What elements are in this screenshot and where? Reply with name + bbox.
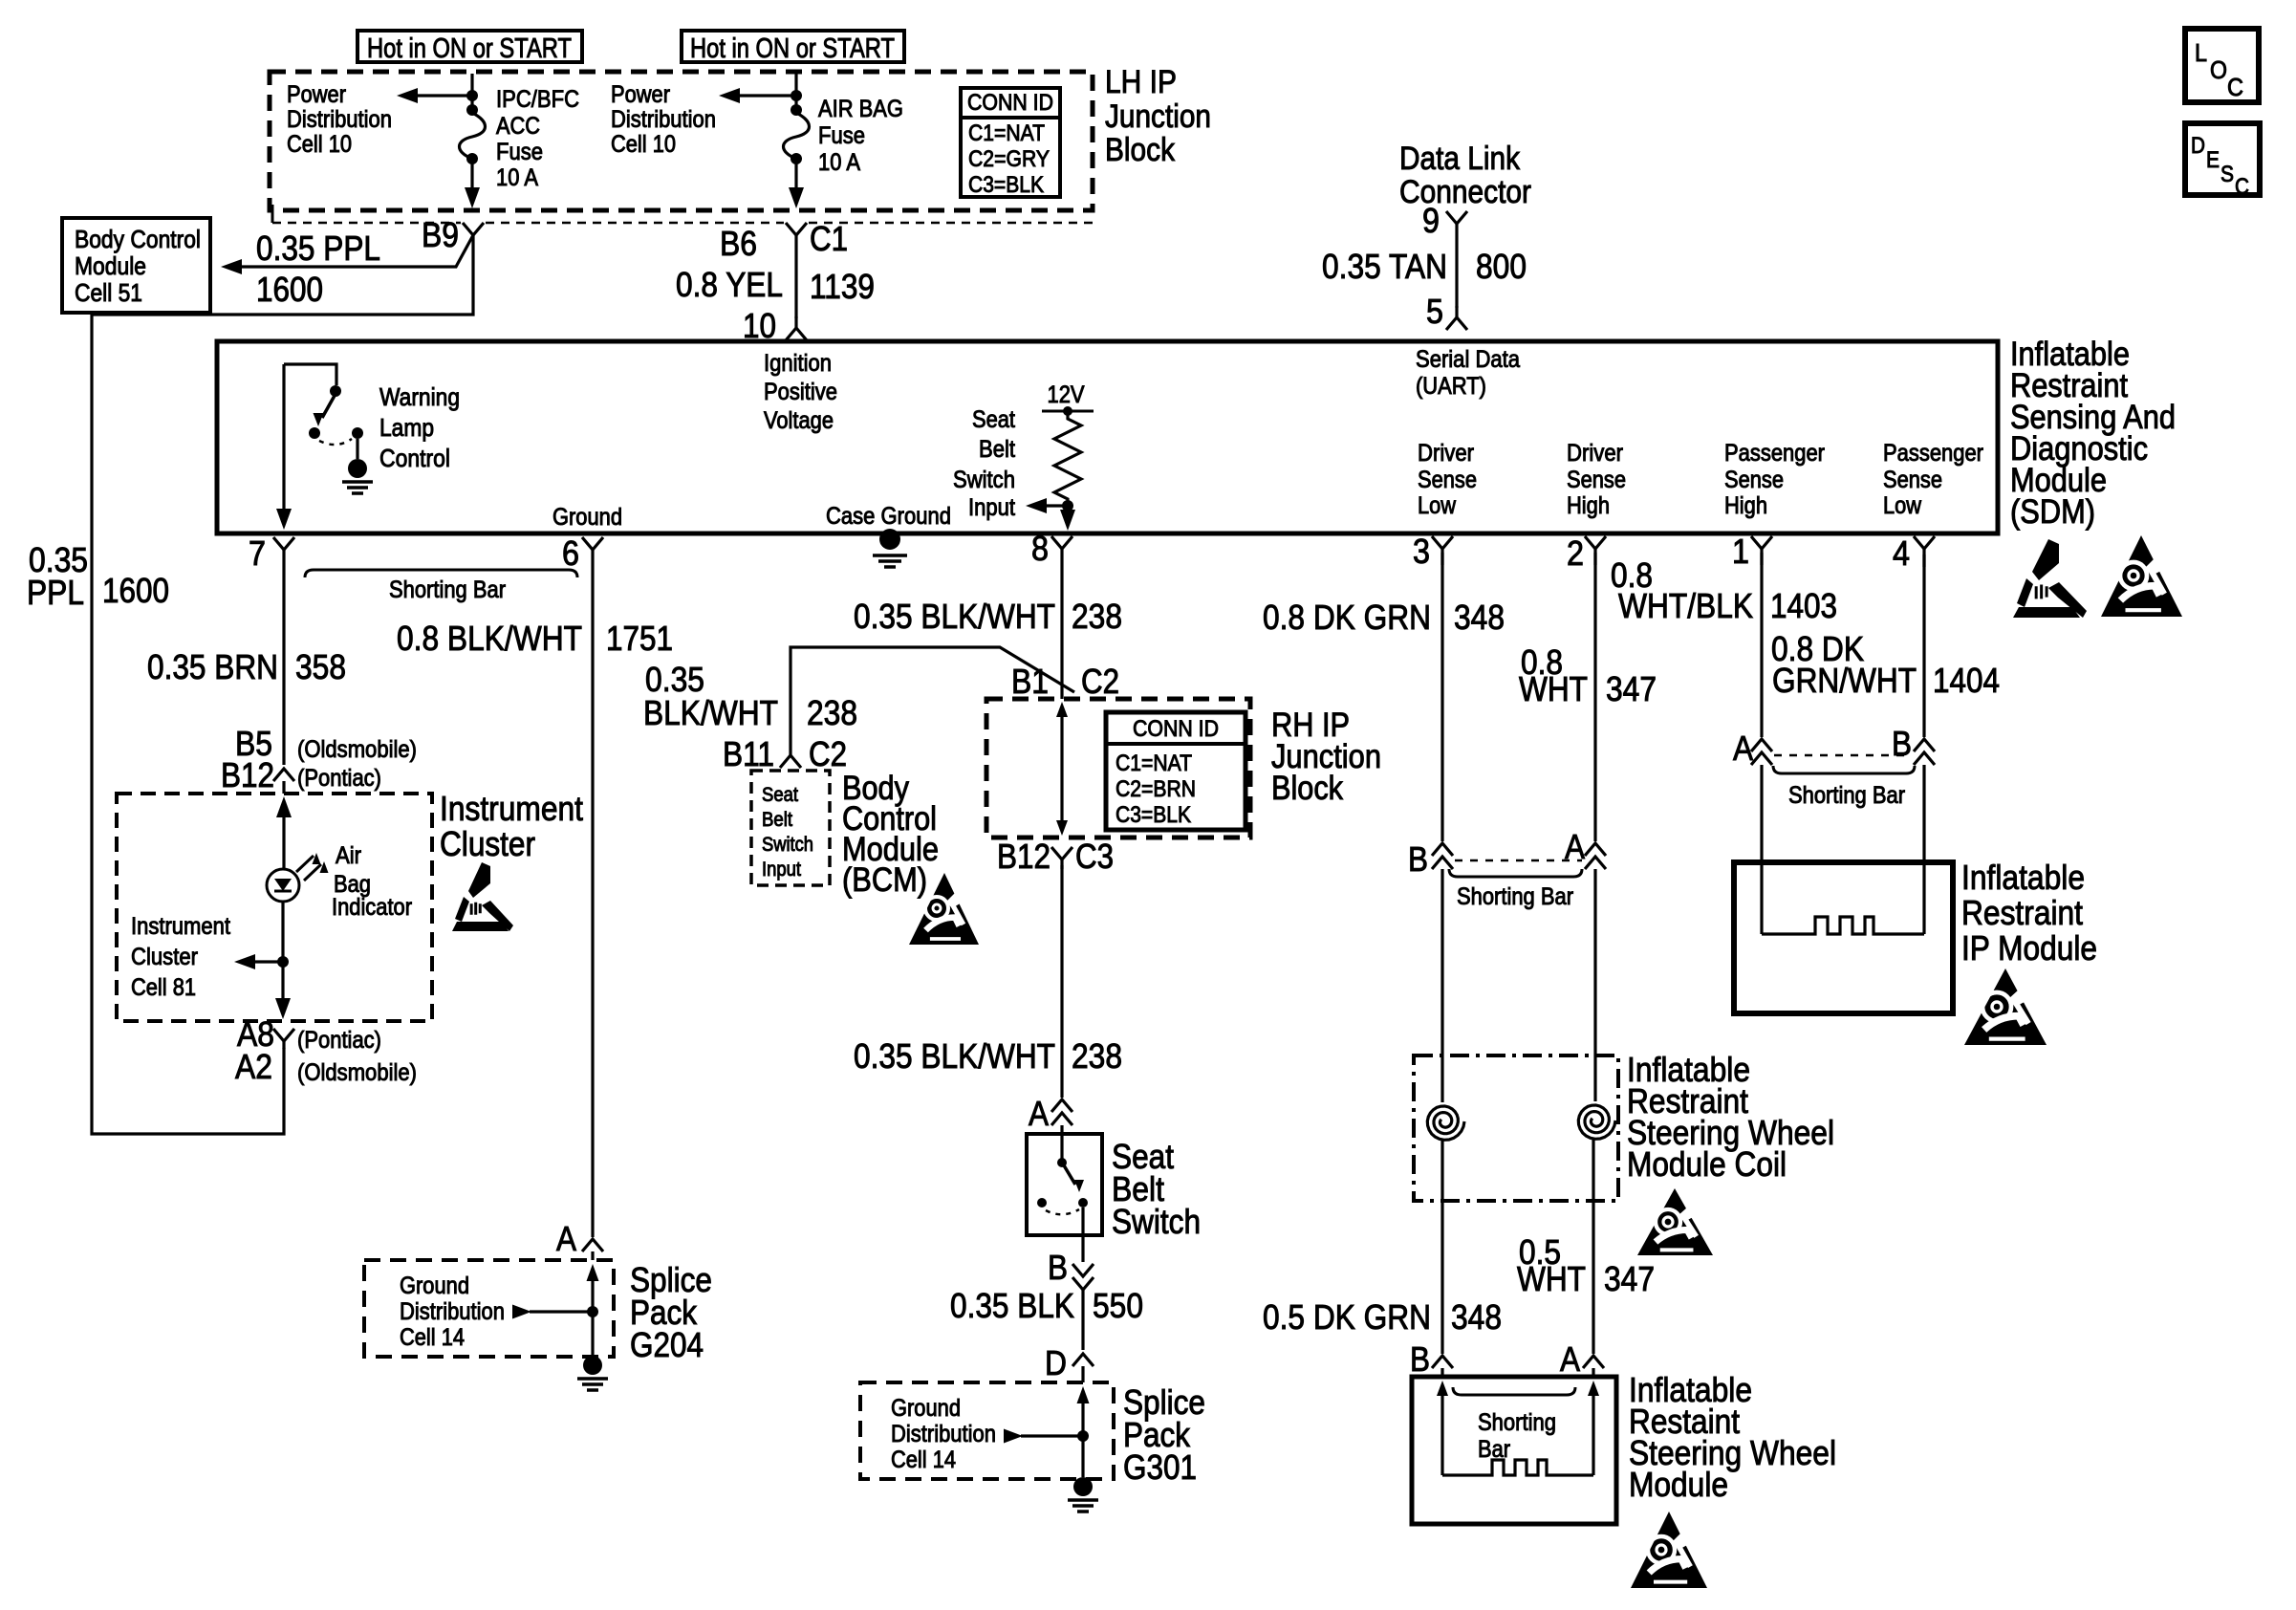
svg-text:Lamp: Lamp (379, 413, 434, 442)
svg-text:Shorting: Shorting (1478, 1409, 1556, 1436)
svg-text:6: 6 (562, 533, 579, 573)
svg-text:C1=NAT: C1=NAT (1116, 751, 1192, 776)
svg-text:1: 1 (1732, 532, 1749, 571)
svg-text:B: B (1410, 1339, 1430, 1379)
svg-text:550: 550 (1093, 1286, 1143, 1325)
svg-text:10 A: 10 A (818, 149, 860, 176)
svg-text:Case Ground: Case Ground (826, 503, 951, 530)
svg-text:B: B (1892, 724, 1912, 763)
svg-text:1404: 1404 (1933, 661, 2000, 700)
svg-text:1139: 1139 (810, 267, 875, 306)
svg-text:Serial Data: Serial Data (1416, 346, 1520, 373)
svg-text:A: A (556, 1219, 576, 1258)
svg-text:Cell 10: Cell 10 (611, 131, 676, 158)
svg-text:C: C (2227, 73, 2243, 101)
svg-text:B1: B1 (1011, 662, 1049, 701)
svg-text:Sense: Sense (1883, 467, 1942, 493)
svg-text:A: A (1733, 729, 1753, 768)
svg-text:Shorting Bar: Shorting Bar (389, 577, 506, 603)
svg-text:IP Module: IP Module (1961, 928, 2097, 968)
svg-text:12V: 12V (1048, 381, 1085, 408)
svg-text:Inflatable: Inflatable (1961, 858, 2085, 897)
svg-text:238: 238 (807, 693, 857, 732)
svg-text:C3: C3 (1075, 837, 1114, 876)
svg-text:C: C (2235, 174, 2249, 200)
svg-text:Warning: Warning (379, 382, 460, 411)
svg-text:347: 347 (1606, 669, 1657, 708)
svg-text:1600: 1600 (102, 571, 169, 610)
svg-text:Switch: Switch (953, 467, 1015, 493)
svg-text:347: 347 (1604, 1259, 1655, 1298)
svg-text:E: E (2206, 147, 2220, 173)
svg-text:0.8 YEL: 0.8 YEL (676, 265, 783, 304)
svg-text:Voltage: Voltage (764, 407, 834, 434)
svg-text:Sense: Sense (1567, 467, 1626, 493)
svg-text:(Oldsmobile): (Oldsmobile) (297, 736, 417, 763)
svg-text:0.8 BLK/WHT: 0.8 BLK/WHT (397, 619, 582, 658)
svg-text:ACC: ACC (496, 113, 540, 140)
svg-text:Cell 81: Cell 81 (131, 974, 196, 1001)
svg-text:Connector: Connector (1399, 174, 1531, 210)
svg-text:2: 2 (1567, 533, 1584, 573)
svg-text:Restraint: Restraint (1961, 893, 2083, 932)
svg-text:1403: 1403 (1770, 586, 1837, 625)
svg-text:Switch: Switch (762, 834, 813, 856)
svg-text:Module Coil: Module Coil (1627, 1144, 1787, 1184)
svg-text:D: D (1045, 1343, 1067, 1382)
svg-text:IPC/BFC: IPC/BFC (496, 86, 579, 113)
svg-text:S: S (2220, 162, 2234, 187)
svg-text:348: 348 (1454, 598, 1505, 637)
svg-text:(UART): (UART) (1416, 373, 1486, 400)
svg-text:Shorting Bar: Shorting Bar (1788, 782, 1905, 809)
svg-text:4: 4 (1893, 533, 1910, 573)
svg-text:B: B (1048, 1248, 1068, 1287)
svg-text:3: 3 (1413, 532, 1430, 571)
svg-text:1751: 1751 (606, 619, 673, 658)
svg-text:B11: B11 (723, 734, 774, 773)
svg-text:238: 238 (1072, 1036, 1122, 1076)
svg-text:Distribution: Distribution (611, 106, 716, 133)
svg-text:Air: Air (336, 842, 361, 869)
svg-text:PPL: PPL (27, 573, 84, 612)
svg-text:WHT: WHT (1517, 1259, 1586, 1298)
svg-text:5: 5 (1426, 292, 1443, 331)
svg-text:Ground: Ground (400, 1273, 469, 1299)
svg-text:0.35 BLK: 0.35 BLK (950, 1286, 1074, 1325)
svg-text:9: 9 (1422, 201, 1440, 240)
svg-text:0.35 BLK/WHT: 0.35 BLK/WHT (854, 597, 1055, 636)
svg-text:1600: 1600 (256, 270, 323, 309)
svg-text:Control: Control (379, 444, 450, 472)
svg-text:LH IP: LH IP (1105, 64, 1177, 100)
svg-text:Cell 14: Cell 14 (891, 1447, 956, 1473)
svg-text:Seat: Seat (762, 784, 798, 806)
svg-text:Input: Input (762, 859, 801, 881)
svg-text:Bar: Bar (1478, 1436, 1510, 1463)
svg-text:Passenger: Passenger (1724, 440, 1825, 467)
svg-text:B12: B12 (221, 755, 274, 794)
svg-text:0.35 BLK/WHT: 0.35 BLK/WHT (854, 1036, 1055, 1076)
svg-text:Low: Low (1418, 492, 1457, 519)
svg-text:0.35 TAN: 0.35 TAN (1322, 247, 1447, 286)
svg-text:Fuse: Fuse (818, 122, 865, 149)
svg-text:(Oldsmobile): (Oldsmobile) (297, 1059, 417, 1086)
svg-text:(SDM): (SDM) (2010, 493, 2095, 531)
svg-text:C3=BLK: C3=BLK (968, 172, 1044, 198)
svg-text:Belt: Belt (979, 436, 1015, 463)
svg-text:Shorting Bar: Shorting Bar (1457, 883, 1573, 910)
svg-text:D: D (2191, 133, 2205, 159)
svg-text:High: High (1724, 492, 1767, 519)
svg-text:Cell 10: Cell 10 (287, 131, 352, 158)
svg-text:High: High (1567, 492, 1610, 519)
svg-text:Module: Module (75, 251, 146, 280)
svg-text:B: B (1408, 839, 1428, 879)
svg-text:C1=NAT: C1=NAT (968, 120, 1045, 146)
svg-text:Block: Block (1105, 132, 1176, 168)
svg-text:Hot in ON or START: Hot in ON or START (690, 33, 895, 64)
svg-text:AIR BAG: AIR BAG (818, 96, 903, 122)
svg-text:Distribution: Distribution (400, 1298, 505, 1325)
svg-text:Cell 51: Cell 51 (75, 278, 142, 307)
svg-text:BLK/WHT: BLK/WHT (643, 693, 778, 732)
svg-text:GRN/WHT: GRN/WHT (1772, 661, 1917, 700)
svg-text:G204: G204 (630, 1325, 704, 1364)
svg-text:Driver: Driver (1418, 440, 1474, 467)
svg-text:B9: B9 (422, 215, 459, 254)
svg-text:Passenger: Passenger (1883, 440, 1983, 467)
svg-text:G301: G301 (1123, 1447, 1197, 1487)
svg-text:O: O (2210, 55, 2227, 84)
svg-text:Ground: Ground (552, 504, 622, 531)
svg-text:Hot in ON or START: Hot in ON or START (367, 33, 572, 64)
svg-text:Instrument: Instrument (131, 913, 230, 940)
svg-text:CONN ID: CONN ID (967, 90, 1053, 116)
svg-text:8: 8 (1031, 529, 1049, 568)
svg-text:C2=BRN: C2=BRN (1116, 776, 1196, 802)
svg-text:A: A (1029, 1094, 1049, 1133)
svg-text:Instrument: Instrument (440, 789, 583, 828)
svg-text:0.35 BRN: 0.35 BRN (147, 647, 278, 686)
svg-text:238: 238 (1072, 597, 1122, 636)
svg-text:CONN ID: CONN ID (1133, 716, 1219, 742)
svg-text:C2: C2 (1081, 662, 1119, 701)
svg-text:A2: A2 (235, 1047, 272, 1086)
svg-text:Seat: Seat (972, 406, 1015, 433)
svg-text:800: 800 (1476, 247, 1527, 286)
svg-text:10 A: 10 A (496, 164, 538, 191)
svg-text:Driver: Driver (1567, 440, 1623, 467)
svg-text:Cell 14: Cell 14 (400, 1324, 465, 1351)
svg-text:Sense: Sense (1724, 467, 1784, 493)
svg-text:(BCM): (BCM) (842, 861, 927, 899)
svg-text:Cluster: Cluster (131, 944, 198, 970)
svg-text:Belt: Belt (762, 809, 792, 831)
svg-text:C3=BLK: C3=BLK (1116, 802, 1191, 828)
svg-text:Cluster: Cluster (440, 824, 535, 863)
svg-text:WHT: WHT (1519, 669, 1588, 708)
svg-text:Block: Block (1271, 770, 1343, 807)
svg-text:0.8 DK GRN: 0.8 DK GRN (1263, 598, 1431, 637)
svg-text:Body Control: Body Control (75, 225, 201, 253)
svg-text:Low: Low (1883, 492, 1922, 519)
svg-text:Input: Input (968, 494, 1015, 521)
svg-text:B6: B6 (720, 224, 757, 263)
svg-text:Positive: Positive (764, 379, 837, 405)
svg-text:Sense: Sense (1418, 467, 1477, 493)
svg-text:7: 7 (249, 533, 266, 573)
svg-text:Ignition: Ignition (764, 350, 832, 377)
svg-text:C1: C1 (810, 219, 848, 258)
svg-text:Indicator: Indicator (332, 894, 412, 921)
svg-text:Power: Power (287, 81, 346, 108)
svg-text:0.35 PPL: 0.35 PPL (256, 228, 380, 268)
svg-text:Data Link: Data Link (1399, 141, 1521, 177)
svg-text:Distribution: Distribution (287, 106, 392, 133)
svg-text:Junction: Junction (1105, 98, 1211, 135)
svg-text:L: L (2195, 38, 2207, 67)
svg-text:C2: C2 (809, 734, 847, 773)
svg-text:WHT/BLK: WHT/BLK (1618, 586, 1753, 625)
svg-text:(Pontiac): (Pontiac) (297, 1027, 381, 1054)
svg-text:Distribution: Distribution (891, 1421, 996, 1447)
svg-text:A: A (1560, 1339, 1580, 1379)
svg-text:0.5 DK GRN: 0.5 DK GRN (1263, 1297, 1431, 1337)
svg-text:Power: Power (611, 81, 670, 108)
svg-text:C2=GRY: C2=GRY (968, 146, 1050, 172)
svg-text:Switch: Switch (1112, 1202, 1201, 1241)
svg-text:Fuse: Fuse (496, 139, 543, 165)
svg-text:348: 348 (1451, 1297, 1502, 1337)
svg-text:Ground: Ground (891, 1395, 961, 1422)
svg-text:(Pontiac): (Pontiac) (297, 765, 381, 792)
svg-text:B12: B12 (997, 837, 1051, 876)
svg-text:Module: Module (1629, 1465, 1728, 1504)
svg-text:358: 358 (295, 647, 346, 686)
